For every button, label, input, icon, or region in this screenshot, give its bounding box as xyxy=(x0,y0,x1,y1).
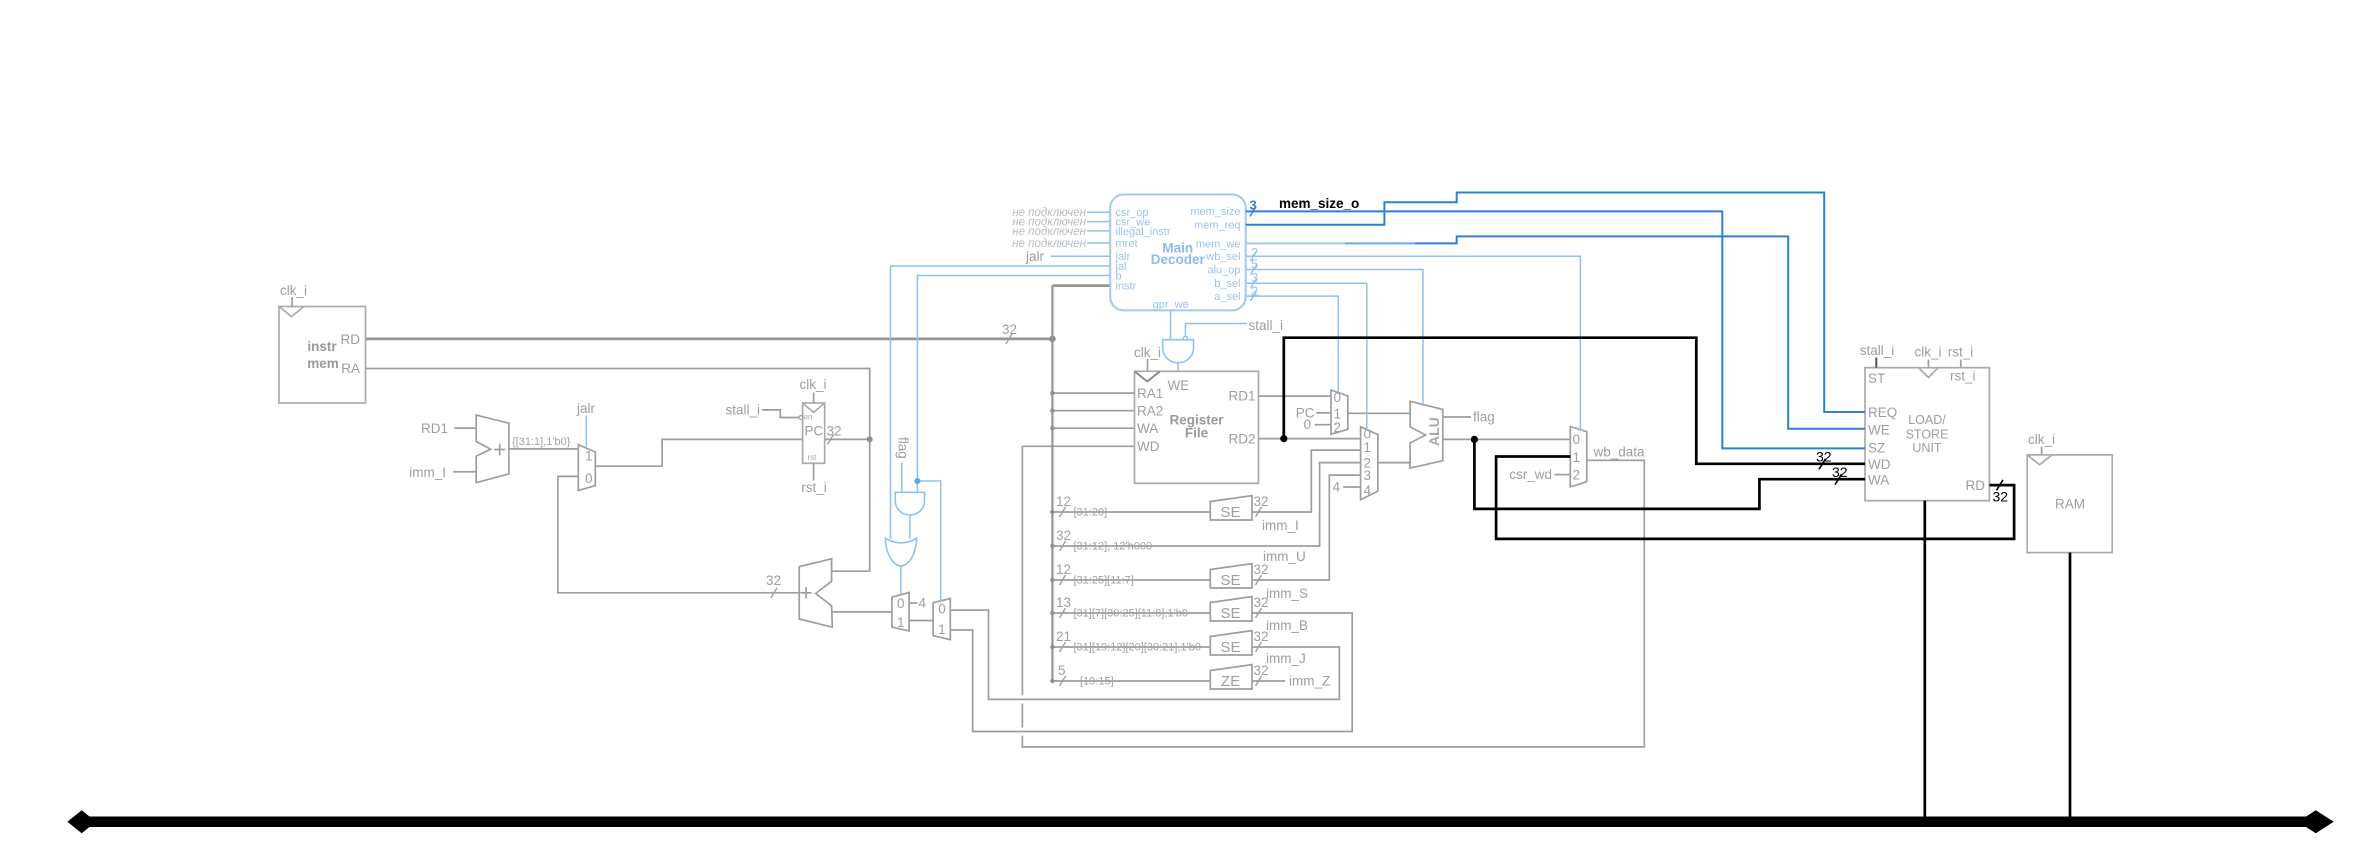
svg-text:1: 1 xyxy=(897,615,905,630)
wire PC label stub to a-mux input 1 xyxy=(1316,412,1331,414)
svg-text:[31][19:12][20][30:21],1'b0: [31][19:12][20][30:21],1'b0 xyxy=(1074,642,1201,654)
wire wb_sel to wb mux select xyxy=(1246,256,1581,430)
svg-text:imm_Z: imm_Z xyxy=(1289,674,1330,689)
svg-text:4: 4 xyxy=(1332,480,1340,495)
system bus left terminator xyxy=(67,810,96,833)
svg-text:clk_i: clk_i xyxy=(1914,345,1941,360)
RAM block xyxy=(2027,455,2112,553)
svg-text:clk_i: clk_i xyxy=(799,377,826,392)
wire address net: ALU result to LSU WA xyxy=(1474,439,1865,509)
svg-text:stall_i: stall_i xyxy=(1249,318,1284,333)
svg-text:illegal_instr: illegal_instr xyxy=(1116,226,1171,238)
svg-text:RD2: RD2 xyxy=(1228,432,1255,447)
svg-text:WE: WE xyxy=(1168,378,1190,393)
slash on WD wire xyxy=(1819,459,1826,470)
wire constant 4 stub to mux M1 input 0 xyxy=(909,602,917,604)
bubble inverted stall_i input xyxy=(1183,336,1187,340)
wire gpr_we to WE AND gate xyxy=(1170,310,1172,339)
svg-text:rst_i: rst_i xyxy=(1950,369,1976,384)
wire flag stub to AND gate xyxy=(901,463,903,493)
wire RA2 input xyxy=(1052,410,1134,412)
svg-text:clk_i: clk_i xyxy=(1134,345,1161,360)
wire nc stub csr_op xyxy=(1087,211,1110,213)
sign extend SE imm_J xyxy=(1210,631,1252,655)
svg-text:wb_sel: wb_sel xyxy=(1205,251,1240,263)
wire store data net: RD2 to LSU WD xyxy=(1284,338,1865,464)
rst_i stub PC xyxy=(813,463,815,480)
svg-text:2: 2 xyxy=(1334,420,1342,435)
svg-text:1: 1 xyxy=(938,622,946,637)
wire imm_S row and riser to b-mux input 3 xyxy=(1052,579,1210,581)
slash on PC out bus xyxy=(828,434,834,444)
gate AND (b & flag) xyxy=(895,492,924,515)
wire ALU result to wb-mux input 0 xyxy=(1443,438,1571,440)
wire RD1 output to a-mux input 0 xyxy=(1259,395,1332,397)
svg-text:stall_i: stall_i xyxy=(725,403,760,418)
slash on RD wire xyxy=(1997,480,2004,491)
svg-text:LOAD/: LOAD/ xyxy=(1908,413,1946,427)
svg-text:21: 21 xyxy=(1056,629,1071,644)
load/store unit block xyxy=(1865,368,1989,501)
system bus xyxy=(80,817,2317,828)
slash on WA wire xyxy=(1835,474,1842,485)
svg-text:WD: WD xyxy=(1868,457,1891,472)
svg-text:en: en xyxy=(804,413,813,422)
wire WD input from wb_data riser xyxy=(1022,445,1134,447)
wire mux M2 output to mux M1 input 1 xyxy=(909,620,933,622)
svg-text:0: 0 xyxy=(938,602,946,617)
gate OR (jal | and) xyxy=(885,538,916,566)
svg-text:WD: WD xyxy=(1137,439,1160,454)
svg-text:1: 1 xyxy=(1573,450,1581,465)
svg-text:instr: instr xyxy=(1116,281,1137,293)
svg-text:SE: SE xyxy=(1220,504,1240,521)
svg-text:mem_size_o: mem_size_o xyxy=(1279,196,1359,211)
mux B (5:1 b_sel) xyxy=(1361,427,1378,500)
wire wb_data riser segments with crossing hops xyxy=(1021,446,1023,695)
clk stub PC xyxy=(813,393,815,404)
wire WA input xyxy=(1052,427,1134,429)
svg-text:RA2: RA2 xyxy=(1137,404,1163,419)
svg-text:SE: SE xyxy=(1220,639,1240,656)
en bubble PC xyxy=(799,416,803,420)
clock marker register file xyxy=(1135,371,1161,381)
wire load data net: LSU RD to wb-mux input 1 xyxy=(1496,457,2014,539)
wire RD1 to adder A1 xyxy=(454,427,476,429)
sign extend SE imm_S xyxy=(1210,564,1252,588)
svg-text:mem: mem xyxy=(307,356,339,371)
wire imm_I row and riser to b-mux input 1 xyxy=(1052,511,1210,513)
svg-text:RA1: RA1 xyxy=(1137,386,1163,401)
wire stall_i to PC en xyxy=(762,410,799,418)
clk stub RAM xyxy=(2041,447,2043,455)
svg-text:4: 4 xyxy=(1364,483,1372,498)
svg-text:imm_I: imm_I xyxy=(1262,518,1299,533)
wire WE AND output xyxy=(1177,363,1179,372)
sign extend SE imm_B xyxy=(1210,597,1252,621)
svg-text:1: 1 xyxy=(585,449,593,464)
wire RD2 output to b-mux input 0 xyxy=(1259,438,1361,440)
slash on adder A2 output xyxy=(771,588,777,598)
wire instr bus vertical feeding register file and immediate decoders xyxy=(1051,286,1053,681)
plus sign adder A2 xyxy=(800,587,811,598)
svg-text:32: 32 xyxy=(827,424,842,439)
wire adder A1 output to jalr mux input 1 xyxy=(509,448,578,450)
slash on mem_size xyxy=(1250,206,1256,216)
svg-text:не подключен: не подключен xyxy=(1012,226,1086,238)
clk stub register file xyxy=(1147,359,1149,371)
svg-text:csr_wd: csr_wd xyxy=(1509,467,1552,482)
main decoder block xyxy=(1110,195,1246,311)
wire a_sel to a-mux select xyxy=(1246,296,1339,393)
svg-text:RD1: RD1 xyxy=(421,421,448,436)
svg-text:[31:25][11:7]: [31:25][11:7] xyxy=(1074,575,1134,587)
svg-text:0: 0 xyxy=(585,471,593,486)
svg-text:[31:12], 12'h000: [31:12], 12'h000 xyxy=(1074,541,1153,553)
wire instr bus: instr mem RD output to decoder instr pin xyxy=(366,337,1053,340)
wire imm_B row xyxy=(1052,612,1210,614)
svg-text:3: 3 xyxy=(1364,468,1372,483)
zero extend ZE imm_Z xyxy=(1210,665,1252,689)
wire jalr mux output to PC input xyxy=(595,439,802,466)
wire RAM to system bus xyxy=(2069,553,2072,818)
mux A (3:1 a_sel) xyxy=(1331,390,1348,434)
wire jal net to OR gate xyxy=(891,266,1111,539)
svg-text:imm_U: imm_U xyxy=(1263,549,1306,564)
svg-text:0: 0 xyxy=(1573,432,1581,447)
wire constant 4 stub to b-mux input 4 xyxy=(1343,486,1360,488)
svg-text:mem_req: mem_req xyxy=(1194,220,1240,232)
svg-text:SE: SE xyxy=(1220,572,1240,589)
svg-text:32: 32 xyxy=(1993,489,2009,505)
svg-text:flag: flag xyxy=(1473,410,1495,425)
svg-text:jalr: jalr xyxy=(576,401,596,416)
wire mem_req net to LSU SZ xyxy=(1246,211,1865,448)
svg-text:32: 32 xyxy=(1002,322,1017,337)
sign extend SE imm_I xyxy=(1210,496,1252,520)
wire AND to OR xyxy=(909,515,911,539)
ALU xyxy=(1410,401,1443,468)
junction PC out / RA / +4 xyxy=(867,436,873,442)
svg-text:rst: rst xyxy=(808,453,818,462)
svg-text:imm_I: imm_I xyxy=(409,465,446,480)
wire adder A2 output loop to jalr mux input 0 xyxy=(558,476,799,592)
wire b_sel to b-mux select xyxy=(1246,283,1367,429)
svg-text:File: File xyxy=(1185,426,1209,441)
junction ALU result / address xyxy=(1471,436,1478,443)
svg-text:alu_op: alu_op xyxy=(1207,265,1240,277)
svg-text:0: 0 xyxy=(1303,417,1311,432)
wire b-mux output to ALU input b xyxy=(1378,462,1410,464)
svg-text:PC: PC xyxy=(805,424,824,439)
system bus right terminator xyxy=(2298,810,2334,833)
svg-text:13: 13 xyxy=(1056,595,1071,610)
svg-text:SE: SE xyxy=(1220,605,1240,622)
svg-text:mem_size: mem_size xyxy=(1190,206,1240,218)
svg-text:WA: WA xyxy=(1868,473,1889,488)
svg-text:[31][7][30:25][11:8],1'b0: [31][7][30:25][11:8],1'b0 xyxy=(1074,608,1188,620)
svg-text:STORE: STORE xyxy=(1906,428,1949,442)
stall_i stub LSU ST xyxy=(1875,358,1877,368)
svg-text:4: 4 xyxy=(919,596,927,611)
wire mem_we net to LSU WE (fades pale to dark) xyxy=(1246,242,1345,244)
wire imm_J row xyxy=(1052,646,1210,648)
clk stub LSU xyxy=(1927,360,1929,368)
wire nc stub mret xyxy=(1087,242,1110,244)
wire RA net: instr mem RA to PC-out vertical, down to branch adder top input xyxy=(366,369,870,572)
svg-text:mret: mret xyxy=(1116,238,1138,250)
svg-text:RAM: RAM xyxy=(2055,497,2085,512)
svg-text:rst_i: rst_i xyxy=(801,480,827,495)
svg-text:SZ: SZ xyxy=(1868,441,1885,456)
junction taps on instr bus xyxy=(1050,391,1054,683)
junction RD2 / store data xyxy=(1280,435,1287,442)
svg-text:imm_S: imm_S xyxy=(1266,586,1308,601)
wire LSU to system bus xyxy=(1923,501,1926,818)
wire mem_size net to LSU REQ xyxy=(1246,193,1865,413)
svg-text:imm_J: imm_J xyxy=(1266,651,1306,666)
svg-text:ST: ST xyxy=(1868,371,1885,386)
wire csr_wd stub to wb-mux input 2 xyxy=(1555,474,1571,476)
svg-text:a_sel: a_sel xyxy=(1214,291,1240,303)
wire nc stub csr_we xyxy=(1087,221,1110,223)
wire ALU flag output xyxy=(1443,416,1471,418)
svg-text:RD: RD xyxy=(1966,478,1986,493)
svg-text:RD: RD xyxy=(341,332,361,347)
wire jalr select stub at mux xyxy=(585,416,587,449)
svg-text:clk_i: clk_i xyxy=(2028,432,2055,447)
svg-text:12: 12 xyxy=(1056,562,1071,577)
svg-text:2: 2 xyxy=(1251,284,1258,299)
svg-text:WA: WA xyxy=(1137,421,1158,436)
svg-text:5: 5 xyxy=(1058,663,1066,678)
svg-text:12: 12 xyxy=(1056,494,1071,509)
wire stall_i to WE AND bubble xyxy=(1185,324,1247,336)
svg-text:RA: RA xyxy=(341,361,360,376)
mux jalr (2:1) xyxy=(578,445,595,491)
wire wb_data net: wb mux output down and back to WD riser xyxy=(1022,460,1644,747)
junction b net circle xyxy=(914,478,920,484)
wire alu_op to ALU select xyxy=(1246,270,1423,405)
wire constant 0 stub to a-mux input 2 xyxy=(1315,424,1331,426)
svg-text:1: 1 xyxy=(1364,440,1372,455)
clock marker instr mem xyxy=(279,307,304,317)
svg-text:0: 0 xyxy=(1334,390,1342,405)
svg-text:0: 0 xyxy=(897,596,905,611)
svg-text:jalr: jalr xyxy=(1025,249,1045,264)
svg-text:32: 32 xyxy=(1056,528,1071,543)
instruction memory block xyxy=(279,307,366,404)
svg-text:32: 32 xyxy=(766,573,781,588)
mux M1 (2:1 mirrored, +4 select) xyxy=(892,593,909,631)
svg-text:gpr_we: gpr_we xyxy=(1153,299,1189,311)
wire imm_U row and riser to b-mux input 2 xyxy=(1052,463,1360,546)
svg-text:b_sel: b_sel xyxy=(1214,278,1240,290)
svg-text:[19:15]: [19:15] xyxy=(1080,676,1114,688)
svg-text:imm_B: imm_B xyxy=(1266,618,1308,633)
wire OR output to mux M1 select xyxy=(900,565,902,595)
wire jalr net label stub to decoder xyxy=(1051,255,1110,257)
svg-text:2: 2 xyxy=(1573,468,1581,483)
wire mux M1 output to adder A2 lower input xyxy=(832,611,892,613)
wire imm_J loop to mux M2 input 0 xyxy=(950,610,1339,699)
adder A1 (RD1 + imm_I) xyxy=(476,415,509,483)
svg-text:[31:20]: [31:20] xyxy=(1074,507,1108,519)
svg-text:mem_we: mem_we xyxy=(1196,239,1241,251)
svg-text:REQ: REQ xyxy=(1868,405,1897,420)
svg-text:ALU: ALU xyxy=(1426,417,1442,446)
wire imm_Z output stub xyxy=(1252,680,1285,682)
wire nc stub illegal_instr xyxy=(1087,230,1110,232)
svg-text:UNIT: UNIT xyxy=(1912,441,1942,455)
wire b branch to mux M2 select xyxy=(917,481,940,601)
svg-text:flag: flag xyxy=(896,437,911,459)
svg-text:Decoder: Decoder xyxy=(1151,252,1206,267)
svg-text:clk_i: clk_i xyxy=(280,283,307,298)
wire RA1 input xyxy=(1052,392,1134,394)
wire imm_Z row xyxy=(1052,680,1210,682)
plus sign adder A1 xyxy=(494,444,505,455)
wire imm_B loop to mux M2 input 1 xyxy=(950,613,1352,732)
svg-text:RD1: RD1 xyxy=(1228,389,1255,404)
mux M2 (2:1 mirrored, imm_J/imm_B) xyxy=(933,599,950,640)
svg-text:stall_i: stall_i xyxy=(1860,343,1895,358)
rst_i stub LSU xyxy=(1960,360,1962,368)
svg-text:не подключен: не подключен xyxy=(1012,238,1086,250)
mux WB (3:1 wb_sel) xyxy=(1570,427,1587,487)
svg-text:instr: instr xyxy=(307,339,337,354)
svg-text:wb_data: wb_data xyxy=(1593,445,1646,460)
gate AND (gpr_we & !stall_i) at register file WE xyxy=(1163,340,1194,363)
clock marker RAM xyxy=(2027,455,2052,465)
adder A2 (PC + offset), mirrored xyxy=(799,559,832,627)
wire imm_I to adder A1 xyxy=(453,471,476,473)
wire a-mux output to ALU input a xyxy=(1348,412,1410,414)
wire PC output to junction xyxy=(825,438,870,440)
svg-text:ZE: ZE xyxy=(1221,673,1240,690)
register PC xyxy=(803,403,825,463)
clock marker LSU xyxy=(1919,368,1939,378)
wire b net to AND gate xyxy=(917,276,1110,493)
svg-text:rst_i: rst_i xyxy=(1948,345,1974,360)
clock marker PC xyxy=(803,403,825,412)
junction instr bus / RD xyxy=(1049,336,1056,343)
svg-text:{[31:1],1'b0}: {[31:1],1'b0} xyxy=(512,436,571,448)
clk stub instr mem xyxy=(291,297,293,307)
register file block xyxy=(1135,371,1259,483)
svg-text:WE: WE xyxy=(1868,423,1890,438)
slash on instr RD bus xyxy=(1006,334,1012,344)
